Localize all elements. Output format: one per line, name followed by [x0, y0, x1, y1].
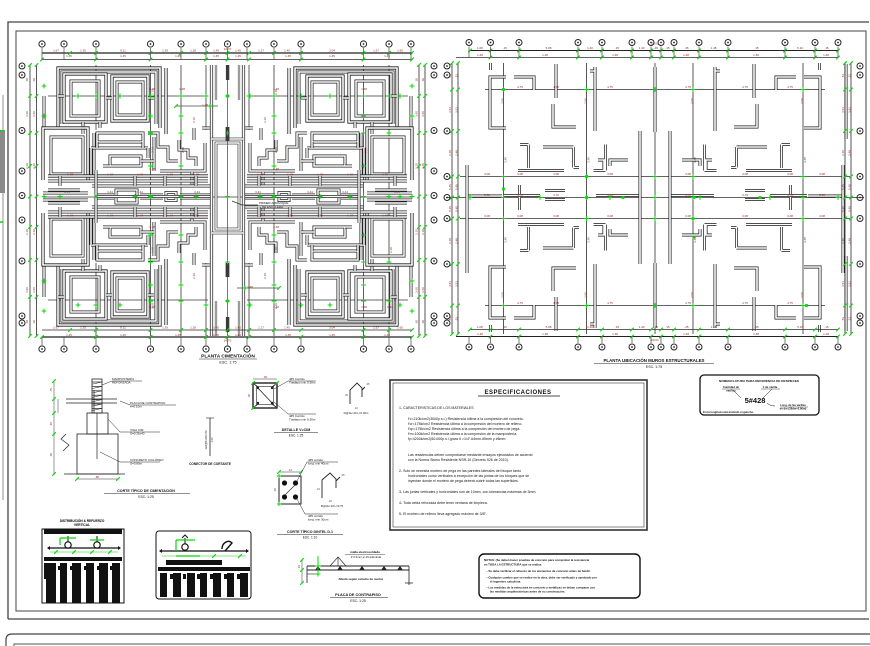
- svg-text:1.45: 1.45: [285, 333, 291, 337]
- wall vertical bar: [590, 67, 595, 131]
- svg-text:ESC. 1:25: ESC. 1:25: [138, 495, 154, 499]
- detail: refuerzo muro 2: [156, 531, 251, 599]
- svg-text:.15: .15: [824, 46, 829, 50]
- svg-text:1.48: 1.48: [711, 325, 717, 329]
- svg-text:2.06: 2.06: [800, 98, 804, 104]
- svg-text:5.45: 5.45: [841, 184, 845, 190]
- svg-text:4.75: 4.75: [553, 301, 559, 305]
- svg-text:8.11: 8.11: [120, 326, 126, 330]
- corridor line 1: [48, 174, 208, 177]
- svg-text:f'm=100k/cm2 Resistencia últ: f'm=100k/cm2 Resistencia última a la com…: [408, 432, 517, 436]
- svg-text:3.44: 3.44: [194, 190, 200, 194]
- maze bar 1: [97, 133, 143, 142]
- link to stair strip: [202, 127, 211, 130]
- svg-text:20.01: 20.01: [651, 338, 659, 342]
- svg-text:1.40: 1.40: [587, 325, 593, 329]
- svg-text:VERTICAL: VERTICAL: [74, 523, 90, 527]
- detail: conector de cortante: [209, 418, 211, 456]
- svg-text:fy=4200k/cm2(60.000p.s.i.)para: fy=4200k/cm2(60.000p.s.i.)para # >1/4".#…: [408, 437, 506, 441]
- svg-text:Nivela según estudio de suelos: Nivela según estudio de suelos: [339, 577, 384, 581]
- svg-text:4.75: 4.75: [517, 301, 523, 305]
- wall bracket shape: [543, 147, 579, 168]
- svg-text:3.08: 3.08: [517, 214, 523, 218]
- right plan walls quadrant TR: [682, 63, 820, 171]
- svg-text:1.48: 1.48: [137, 172, 143, 176]
- left plan internal green markers: [148, 94, 153, 99]
- svg-text:1.40: 1.40: [587, 46, 593, 50]
- svg-text:.51: .51: [841, 74, 845, 79]
- svg-text:Traslapo min.0.50m: Traslapo min.0.50m: [289, 381, 316, 385]
- corridor line 2: [92, 185, 210, 188]
- svg-text:1.28: 1.28: [190, 49, 196, 53]
- room R2 inner: [117, 82, 143, 115]
- seam corridor left: [43, 193, 88, 200]
- seam corridor: [96, 195, 211, 198]
- svg-text:1.40: 1.40: [639, 325, 645, 329]
- left plan bottom dimension lines: [42, 336, 412, 338]
- svg-text:2.06: 2.06: [501, 292, 505, 298]
- svg-text:en dm (28dm=2.80m): en dm (28dm=2.80m): [780, 406, 807, 410]
- svg-text:1.57: 1.57: [373, 49, 379, 53]
- svg-text:ESC. 1:75: ESC. 1:75: [646, 365, 662, 369]
- svg-text:1.45: 1.45: [175, 333, 181, 337]
- svg-text:.40: .40: [49, 422, 53, 427]
- svg-text:3.44: 3.44: [342, 190, 348, 194]
- svg-text:1.45: 1.45: [384, 333, 390, 337]
- svg-text:2.10: 2.10: [274, 89, 278, 95]
- right plan internal green markers: [501, 87, 506, 92]
- maze bar 2: [91, 147, 148, 150]
- left plan seam walls L: [43, 170, 211, 223]
- svg-text:.15: .15: [754, 46, 759, 50]
- svg-text:2.10: 2.10: [421, 163, 425, 169]
- svg-text:1.45: 1.45: [329, 333, 335, 337]
- svg-text:.60: .60: [32, 78, 36, 83]
- svg-text:1.45: 1.45: [213, 54, 219, 58]
- svg-text:1.39: 1.39: [162, 49, 168, 53]
- right plan walls quadrant BR: [682, 225, 820, 333]
- svg-text:1.45: 1.45: [120, 333, 126, 337]
- svg-text:3.44: 3.44: [307, 190, 313, 194]
- svg-text:long. min 30cm: long. min 30cm: [308, 518, 329, 522]
- svg-text:CORTE TÍPICO DE CIMENTACIÓN: CORTE TÍPICO DE CIMENTACIÓN: [117, 488, 175, 493]
- svg-text:long. min 40cm: long. min 40cm: [308, 462, 329, 466]
- svg-text:PLANTA UBICACIÓN MUROS ESTRUCT: PLANTA UBICACIÓN MUROS ESTRUCTURALES: [604, 358, 705, 363]
- long wall x166: [164, 68, 167, 134]
- maze steps 2: [179, 140, 196, 166]
- wall centre bottom bar: [654, 263, 657, 328]
- wall d-shape: [594, 145, 606, 171]
- svg-text:# de varilla: # de varilla: [763, 385, 778, 389]
- seam pad 1: [116, 190, 137, 203]
- wall centre flank vertical: [639, 131, 642, 264]
- svg-text:3.51: 3.51: [841, 281, 845, 287]
- wall L-shape: [553, 104, 576, 127]
- svg-text:3.60: 3.60: [415, 287, 419, 293]
- maze links 2: [91, 148, 148, 176]
- svg-text:4.75: 4.75: [787, 301, 793, 305]
- svg-text:1.48: 1.48: [477, 332, 483, 336]
- svg-text:.14: .14: [288, 468, 293, 472]
- left plan top dimension lines: [42, 52, 412, 54]
- svg-text:.15: .15: [824, 325, 829, 329]
- svg-text:1.39: 1.39: [162, 326, 168, 330]
- especificaciones box: [390, 380, 647, 530]
- right plan walls quadrant TL: [490, 63, 628, 171]
- svg-text:2.48: 2.48: [448, 238, 452, 244]
- svg-text:3.60: 3.60: [25, 287, 29, 293]
- wall x194: [193, 128, 196, 140]
- svg-text:2.10: 2.10: [150, 147, 154, 153]
- svg-text:.20: .20: [273, 488, 277, 493]
- svg-text:1.48: 1.48: [167, 213, 173, 217]
- svg-text:3.44: 3.44: [107, 190, 113, 194]
- svg-text:1.48: 1.48: [137, 213, 143, 217]
- svg-text:2- Solo se necesita morter: 2- Solo se necesita mortero de pega en l…: [399, 469, 521, 473]
- svg-text:.51: .51: [841, 317, 845, 322]
- wall long bar right edge: [842, 165, 845, 273]
- svg-text:1.28: 1.28: [190, 326, 196, 330]
- svg-text:3.44: 3.44: [255, 190, 261, 194]
- svg-text:5.45: 5.45: [848, 184, 852, 190]
- svg-text:inyectan donde el mortero: inyectan donde el mortero de pega deberá…: [408, 479, 519, 483]
- wall x94: [93, 133, 96, 176]
- svg-text:5.45: 5.45: [455, 206, 459, 212]
- wall vertical bar upper: [555, 64, 558, 98]
- corridor line 3b: [140, 194, 163, 197]
- svg-text:2.10: 2.10: [389, 247, 393, 253]
- svg-text:1.45: 1.45: [235, 49, 241, 53]
- svg-text:NOTAS: (Se deben hacer pru: NOTAS: (Se deben hacer pruebas de concre…: [484, 558, 590, 562]
- svg-text:DETALLE V=CIM: DETALLE V=CIM: [282, 428, 310, 432]
- svg-text:3.08: 3.08: [553, 214, 559, 218]
- svg-text:5.08: 5.08: [546, 46, 552, 50]
- svg-text:20.01: 20.01: [651, 42, 659, 46]
- corridor line 3c: [180, 194, 210, 197]
- svg-text:– Se debe verificar el refuer: – Se debe verificar el refuerzo de los e…: [486, 569, 591, 573]
- left plan grid lines: [44, 65, 412, 336]
- corridor line 3a: [97, 194, 114, 197]
- room R1 outer: [64, 74, 106, 122]
- svg-text:1.48: 1.48: [202, 103, 208, 107]
- svg-text:f'c=210k/cm2(3000p.s.i.) Resi: f'c=210k/cm2(3000p.s.i.) Resistencia últ…: [408, 417, 524, 421]
- svg-text:1.65: 1.65: [397, 49, 403, 53]
- svg-text:1.45: 1.45: [284, 49, 290, 53]
- svg-text:.20: .20: [328, 499, 332, 503]
- svg-text:3.45: 3.45: [503, 157, 507, 163]
- wall J-shape: [518, 145, 564, 171]
- corridor line 1b: [48, 180, 208, 183]
- svg-text:3.08: 3.08: [484, 172, 490, 176]
- wall right edge bar bottom: [845, 256, 848, 331]
- svg-text:3.45: 3.45: [586, 157, 590, 163]
- svg-text:2.10: 2.10: [25, 229, 29, 235]
- svg-text:1.45: 1.45: [284, 326, 290, 330]
- right plan centre band walls L: [468, 131, 640, 264]
- svg-text:.45: .45: [684, 325, 689, 329]
- svg-text:3.60: 3.60: [32, 111, 36, 117]
- left room outer: [43, 128, 88, 180]
- svg-text:.60: .60: [415, 78, 419, 83]
- svg-text:1.67: 1.67: [53, 49, 59, 53]
- svg-text:con la Norma Sismo Resistente: con la Norma Sismo Resistente NSR-10 (De…: [408, 458, 509, 462]
- svg-text:f'cr=175k/cm2 Resistencia úl: f'cr=175k/cm2 Resistencia última a la co…: [408, 422, 522, 426]
- svg-text:3.51: 3.51: [448, 107, 452, 113]
- svg-text:4.75: 4.75: [742, 301, 748, 305]
- svg-text:ESPECIFICACIONES: ESPECIFICACIONES: [484, 390, 551, 396]
- svg-text:3.44: 3.44: [64, 190, 70, 194]
- svg-text:5- El mortero de relleno: 5- El mortero de relleno lleva agregado …: [399, 512, 487, 516]
- svg-text:3.45: 3.45: [693, 237, 697, 243]
- svg-text:1.48: 1.48: [477, 53, 483, 57]
- svg-text:3.08: 3.08: [607, 214, 613, 218]
- svg-text:1.45: 1.45: [66, 333, 72, 337]
- detail: estribo hook V-CIM: [350, 383, 365, 404]
- svg-text:2.10: 2.10: [363, 147, 367, 153]
- svg-text:1.48: 1.48: [67, 213, 73, 217]
- svg-text:2.10: 2.10: [274, 303, 278, 309]
- svg-text:1.48: 1.48: [287, 213, 293, 217]
- svg-text:8.11: 8.11: [120, 49, 126, 53]
- svg-text:.60: .60: [25, 78, 29, 83]
- svg-text:3- Las juntas verticales y: 3- Las juntas verticales y horizontales …: [399, 490, 536, 494]
- svg-text:1.48: 1.48: [167, 172, 173, 176]
- right plan grid lines: [446, 63, 864, 334]
- svg-text:S=0.35x40: S=0.35x40: [130, 432, 145, 436]
- svg-text:1.48: 1.48: [683, 53, 689, 57]
- svg-text:1.08: 1.08: [477, 46, 483, 50]
- detail: corte tipico dintel D.1: [279, 476, 301, 504]
- maze corner: [160, 143, 205, 171]
- svg-text:.60: .60: [25, 320, 29, 325]
- svg-text:1.45: 1.45: [213, 49, 219, 53]
- svg-text:5.08: 5.08: [546, 325, 552, 329]
- svg-text:S=0.80m: S=0.80m: [130, 462, 143, 466]
- svg-text:5.45: 5.45: [448, 206, 452, 212]
- svg-text:2.10: 2.10: [415, 229, 419, 235]
- svg-text:.45: .45: [684, 46, 689, 50]
- svg-text:horizontales como verticales: horizontales como verticales a excepción…: [408, 474, 529, 478]
- svg-text:2.10: 2.10: [25, 163, 29, 169]
- wall stub above C: [489, 63, 492, 70]
- svg-text:1.45: 1.45: [235, 54, 241, 58]
- svg-text:.10: .10: [354, 406, 358, 410]
- svg-text:3.45: 3.45: [586, 237, 590, 243]
- svg-text:1.48: 1.48: [273, 225, 279, 229]
- room R1 inner: [71, 81, 99, 116]
- svg-text:1.45: 1.45: [175, 54, 181, 58]
- adjacent sheet left edge: [2, 95, 4, 500]
- svg-text:2.10: 2.10: [192, 273, 196, 279]
- svg-text:3.08: 3.08: [819, 214, 825, 218]
- svg-text:1.48: 1.48: [612, 53, 618, 57]
- svg-text:3.08: 3.08: [787, 214, 793, 218]
- svg-text:4.75: 4.75: [685, 301, 691, 305]
- room R2 outer: [112, 76, 148, 121]
- svg-text:3.70: 3.70: [819, 193, 825, 197]
- left plan walls quadrant BR: [244, 198, 412, 325]
- svg-text:1.65: 1.65: [397, 326, 403, 330]
- left plan walls quadrant TR: [244, 68, 412, 195]
- svg-text:3.60: 3.60: [421, 111, 425, 117]
- svg-text:.51: .51: [848, 317, 852, 322]
- svg-text:2.48: 2.48: [455, 238, 459, 244]
- left plan seam walls R: [244, 170, 412, 223]
- svg-text:2.06: 2.06: [584, 98, 588, 104]
- svg-text:.05: .05: [366, 382, 370, 386]
- svg-text:.60: .60: [421, 320, 425, 325]
- stair strip wall right: [242, 65, 245, 336]
- svg-text:.25: .25: [344, 393, 348, 397]
- svg-text:1.45: 1.45: [329, 54, 335, 58]
- svg-text:ESC. 1:75: ESC. 1:75: [219, 361, 236, 365]
- svg-text:ESC. 1:10: ESC. 1:10: [303, 536, 318, 540]
- svg-text:1.48: 1.48: [753, 53, 759, 57]
- svg-text:3.60: 3.60: [32, 287, 36, 293]
- svg-text:DE ESCALERA: DE ESCALERA: [262, 205, 283, 209]
- svg-text:5.16: 5.16: [797, 325, 803, 329]
- svg-text:2.06: 2.06: [690, 98, 694, 104]
- svg-text:.15: .15: [615, 46, 620, 50]
- svg-text:PLACA DE CONTRAPISO: PLACA DE CONTRAPISO: [335, 593, 381, 597]
- svg-text:Long. de las varillas: Long. de las varillas: [780, 403, 806, 407]
- svg-text:1.48: 1.48: [612, 332, 618, 336]
- svg-text:.15: .15: [503, 46, 508, 50]
- wall right centre bar: [596, 194, 640, 197]
- svg-text:3.08: 3.08: [742, 172, 748, 176]
- svg-text:1.48: 1.48: [107, 213, 113, 217]
- svg-text:1.48: 1.48: [542, 53, 548, 57]
- svg-text:1.40: 1.40: [639, 46, 645, 50]
- svg-text:Fl@2e/.10 L=0.75: Fl@2e/.10 L=0.75: [321, 504, 344, 508]
- left plan walls quadrant BL: [43, 198, 211, 325]
- corridor link x192: [191, 172, 194, 186]
- svg-text:2.10: 2.10: [150, 247, 154, 253]
- svg-text:las medidas arquitectónicas an: las medidas arquitectónicas antes de su …: [490, 590, 565, 594]
- maze links 3: [103, 161, 154, 166]
- svg-text:NOMENCLATURA PARA REFERENCIA: NOMENCLATURA PARA REFERENCIA DE DESPIECE…: [719, 379, 799, 383]
- svg-text:En la longitud está incluido e: En la longitud está incluido el gancho.: [703, 410, 754, 414]
- svg-text:CONECTOR DE CORTANTE: CONECTOR DE CORTANTE: [189, 462, 231, 466]
- svg-text:1.48: 1.48: [347, 172, 353, 176]
- svg-text:5#428: 5#428: [745, 396, 766, 405]
- svg-text:Las resistencias deben comprob: Las resistencias deben comprobarse media…: [408, 453, 533, 457]
- svg-text:2.10: 2.10: [181, 147, 185, 153]
- svg-text:.80: .80: [95, 475, 100, 479]
- svg-text:3.60: 3.60: [421, 287, 425, 293]
- svg-text:3.51: 3.51: [841, 107, 845, 113]
- svg-text:1.48: 1.48: [149, 225, 155, 229]
- right plan top dimension lines: [470, 50, 838, 52]
- wall left centre bar: [468, 195, 502, 198]
- svg-text:3.45: 3.45: [693, 157, 697, 163]
- svg-text:.51: .51: [448, 74, 452, 79]
- svg-text:.60: .60: [32, 320, 36, 325]
- svg-text:1.48: 1.48: [257, 172, 263, 176]
- svg-text:REFORZADA: REFORZADA: [112, 381, 131, 385]
- right plan centre band walls R: [670, 131, 842, 264]
- svg-text:.15: .15: [503, 325, 508, 329]
- wall stub2: [610, 160, 628, 166]
- svg-text:1#4@0.20/1.50: 1#4@0.20/1.50: [204, 430, 208, 450]
- svg-text:1.45: 1.45: [66, 54, 72, 58]
- stair strip inner verticals: [216, 65, 239, 336]
- svg-text:en TODA LA ESTRUCTURA que: en TODA LA ESTRUCTURA que se realice.: [484, 563, 542, 567]
- left plan side dimension lines: [30, 65, 425, 336]
- svg-text:24.70: 24.70: [224, 339, 232, 343]
- svg-text:3.08: 3.08: [685, 214, 691, 218]
- svg-text:1.45: 1.45: [384, 54, 390, 58]
- svg-text:1.45: 1.45: [285, 54, 291, 58]
- svg-text:1.48: 1.48: [753, 332, 759, 336]
- left plan walls quadrant TL: [43, 68, 211, 195]
- svg-text:3.04: 3.04: [329, 326, 335, 330]
- svg-text:1.48: 1.48: [317, 213, 323, 217]
- svg-text:3.70: 3.70: [553, 193, 559, 197]
- svg-text:1.48: 1.48: [193, 172, 199, 176]
- svg-text:2.48: 2.48: [448, 150, 452, 156]
- svg-text:1.48: 1.48: [542, 332, 548, 336]
- wall long bar left edge: [466, 165, 469, 273]
- svg-text:3.70: 3.70: [685, 193, 691, 197]
- maze rect: [110, 156, 141, 166]
- svg-text:1.45: 1.45: [235, 326, 241, 330]
- svg-text:3.08: 3.08: [742, 214, 748, 218]
- svg-text:.30: .30: [263, 375, 268, 379]
- svg-text:3.60: 3.60: [415, 111, 419, 117]
- svg-text:1.35: 1.35: [80, 326, 86, 330]
- svg-text:2.06: 2.06: [584, 292, 588, 298]
- svg-text:CORTE TÍPICO DINTEL D.1: CORTE TÍPICO DINTEL D.1: [287, 529, 333, 534]
- svg-text:2.10: 2.10: [32, 163, 36, 169]
- svg-text:3.60: 3.60: [25, 111, 29, 117]
- svg-text:5.45: 5.45: [455, 184, 459, 190]
- svg-text:.15: .15: [665, 325, 670, 329]
- svg-text:.45: .45: [654, 46, 659, 50]
- svg-text:1.48: 1.48: [287, 172, 293, 176]
- svg-text:.60: .60: [421, 78, 425, 83]
- maze steps right: [148, 133, 178, 161]
- svg-text:Traslapo min 0.50m: Traslapo min 0.50m: [289, 418, 316, 422]
- svg-text:12.70: 12.70: [224, 47, 232, 51]
- svg-text:.60: .60: [49, 453, 53, 458]
- svg-text:3.08: 3.08: [685, 172, 691, 176]
- stair dark bars: [226, 127, 230, 141]
- nomenclatura box: [700, 375, 819, 415]
- svg-text:3.45: 3.45: [803, 237, 807, 243]
- svg-text:3.51: 3.51: [455, 107, 459, 113]
- seam vertical x96: [95, 170, 98, 223]
- svg-text:1.50: 1.50: [210, 437, 214, 443]
- svg-text:2.10: 2.10: [150, 89, 154, 95]
- svg-text:3.08: 3.08: [553, 172, 559, 176]
- maze vertical: [153, 137, 156, 171]
- svg-text:1.48: 1.48: [361, 305, 367, 309]
- svg-text:3.70: 3.70: [787, 193, 793, 197]
- svg-text:4.75: 4.75: [787, 85, 793, 89]
- svg-text:3.08: 3.08: [517, 172, 523, 176]
- stair well: [216, 143, 239, 229]
- wall centre top bar: [654, 67, 657, 132]
- left boundary upper: [43, 96, 46, 128]
- svg-text:1.35: 1.35: [80, 49, 86, 53]
- svg-text:.75: .75: [49, 388, 53, 393]
- svg-text:3.08: 3.08: [819, 172, 825, 176]
- svg-text:5.45: 5.45: [848, 206, 852, 212]
- stub below block: [83, 122, 100, 134]
- svg-text:2.06: 2.06: [800, 292, 804, 298]
- detail: detalle V-CIM: [253, 383, 277, 408]
